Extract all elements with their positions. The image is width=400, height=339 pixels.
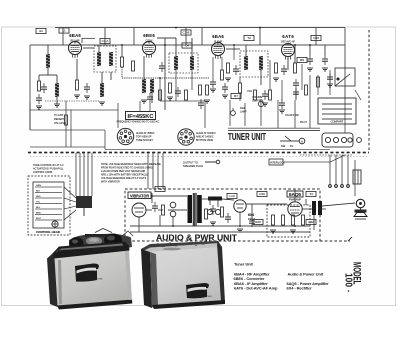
svg-text:AUDIO & PWR UNIT: AUDIO & PWR UNIT: [156, 232, 237, 242]
svg-text:HALLICRAFTERS: HALLICRAFTERS: [197, 295, 212, 298]
svg-text:SPEAKER PLUG: SPEAKER PLUG: [183, 164, 203, 168]
svg-text:6X4: 6X4: [248, 213, 254, 217]
svg-text:HALLICRAFTERS: HALLICRAFTERS: [87, 277, 103, 280]
svg-text:Audio & Power Unit: Audio & Power Unit: [288, 271, 324, 276]
svg-text:TUBE SOCKET: TUBE SOCKET: [136, 139, 153, 142]
svg-text:6BA6: 6BA6: [69, 33, 81, 38]
svg-text:R20: R20: [255, 220, 261, 224]
svg-text:RED: RED: [36, 196, 41, 198]
svg-text:BOTTOM VIEW: BOTTOM VIEW: [196, 139, 214, 142]
svg-text:BRN: BRN: [36, 213, 41, 215]
svg-text:A1: A1: [39, 29, 43, 33]
svg-text:WHT: WHT: [36, 218, 42, 220]
svg-text:THE: THE: [87, 275, 92, 278]
svg-text:6BE6: 6BE6: [143, 33, 155, 38]
svg-text:6X4 - Rectifier: 6X4 - Rectifier: [287, 285, 313, 290]
svg-text:ON-OFF SW: ON-OFF SW: [285, 114, 299, 117]
svg-text:T3: T3: [309, 192, 313, 196]
svg-text:C40: C40: [259, 192, 265, 196]
svg-text:INTERLOCK: INTERLOCK: [270, 161, 285, 165]
svg-text:COMPART: COMPART: [331, 120, 344, 124]
svg-text:BLK: BLK: [36, 191, 41, 193]
svg-text:F1: F1: [158, 187, 162, 191]
svg-text:T2: T2: [247, 36, 251, 40]
svg-text:TO ANT: TO ANT: [54, 113, 64, 117]
svg-text:6AT6 - Det-AVC-AF Amp: 6AT6 - Det-AVC-AF Amp: [234, 285, 278, 290]
svg-text:TUNER UNIT: TUNER UNIT: [228, 132, 266, 143]
svg-text:SW: SW: [281, 144, 286, 148]
svg-text:C42: C42: [308, 220, 314, 224]
svg-text:6BA6: 6BA6: [212, 34, 224, 39]
svg-text:PILOT: PILOT: [300, 121, 307, 124]
svg-text:CONTROL KNOB: CONTROL KNOB: [33, 171, 52, 174]
svg-text:R9: R9: [300, 58, 304, 62]
svg-text:LAMP: LAMP: [240, 110, 247, 113]
svg-text:VOL: VOL: [247, 89, 253, 93]
svg-text:A: A: [301, 140, 303, 144]
svg-text:OUTPUT TO: OUTPUT TO: [183, 161, 198, 165]
svg-text:BLU: BLU: [36, 207, 41, 209]
svg-text:L10: L10: [229, 194, 234, 198]
svg-text:IF AMP: IF AMP: [214, 40, 222, 43]
svg-text:RF AMP: RF AMP: [71, 39, 80, 42]
svg-text:FREQUENCY RANGE 540 TO 1600 KC: FREQUENCY RANGE 540 TO 1600 KC: [117, 121, 160, 124]
svg-text:CONTROL HEAD: CONTROL HEAD: [36, 230, 61, 234]
svg-text:DET-AVC-AF: DET-AVC-AF: [281, 40, 296, 43]
svg-text:IF=455KC: IF=455KC: [128, 114, 154, 120]
svg-text:6AT6: 6AT6: [282, 34, 294, 39]
svg-text:VIBRATOR: VIBRATOR: [130, 193, 149, 198]
svg-text:CONV: CONV: [146, 39, 153, 42]
svg-text:GRN: GRN: [36, 185, 41, 187]
svg-text:RECEPT: RECEPT: [54, 117, 65, 121]
svg-text:6V: 6V: [290, 144, 293, 148]
svg-text:WITH VIBRATOR: WITH VIBRATOR: [101, 181, 120, 184]
svg-text:R7: R7: [234, 94, 238, 98]
svg-text:100: 100: [343, 273, 354, 287]
svg-text:Tuner Unit: Tuner Unit: [234, 261, 253, 266]
